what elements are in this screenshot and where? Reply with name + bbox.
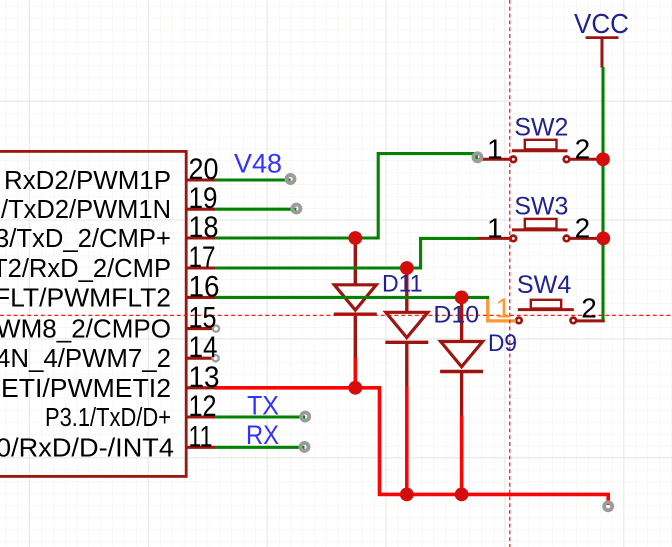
pin 18 stub <box>187 236 216 239</box>
svg-text:/TxD2/PWM1N: /TxD2/PWM1N <box>1 196 171 224</box>
open end marker net V48 <box>287 175 295 183</box>
wire net V48 <box>216 178 291 181</box>
switch SW3 <box>479 219 602 241</box>
diode D9 <box>440 297 483 415</box>
svg-text:15: 15 <box>189 302 217 335</box>
wire net pin13 / bottom bus (red) <box>215 388 608 505</box>
wire net pin16 toward SW4 <box>216 297 488 300</box>
pin 14 stub <box>187 357 213 360</box>
svg-text:D10: D10 <box>433 301 479 328</box>
diode D10 <box>385 268 428 387</box>
wire D11 cathode to junction <box>353 357 357 388</box>
pin 17 stub <box>187 266 216 269</box>
svg-text:13: 13 <box>189 361 220 394</box>
junction pin17/D10 anode <box>400 261 414 275</box>
svg-text:WM8_2/CMPO: WM8_2/CMPO <box>0 316 171 344</box>
pin 12 stub <box>187 415 216 418</box>
IC U1 body <box>0 151 186 476</box>
pin 19 stub <box>187 208 216 211</box>
svg-text:T2/RxD_2/CMP: T2/RxD_2/CMP <box>0 255 171 283</box>
wire net pin18 to SW2 pin1 <box>216 154 477 238</box>
svg-text:17: 17 <box>189 241 216 274</box>
wire D9 cathode to bus <box>460 416 464 495</box>
svg-text:2: 2 <box>575 133 591 164</box>
junction VCC/SW2 pin2 <box>596 152 610 166</box>
junction bus/D9 cathode <box>455 488 469 502</box>
highlighted wire segment to SW4 pin 1 (orange) <box>488 299 516 321</box>
diode D11 <box>334 238 377 357</box>
unconnected pin 14 end marker <box>213 355 219 361</box>
pin 11 stub <box>187 446 216 449</box>
svg-text:2: 2 <box>575 213 591 244</box>
junction pin16/D9 anode <box>455 291 469 305</box>
wire D10 cathode to bus <box>405 387 409 495</box>
junction pin13/D11 cathode <box>348 381 362 395</box>
open end marker pin19 net <box>292 205 300 213</box>
junction VCC/SW3 pin2 <box>596 232 610 246</box>
svg-text:20: 20 <box>189 153 219 186</box>
svg-text:3/TxD_2/CMP+: 3/TxD_2/CMP+ <box>0 225 171 253</box>
switch SW2 <box>479 140 602 162</box>
svg-text:4N_4/PWM7_2: 4N_4/PWM7_2 <box>0 345 171 373</box>
wire net RX <box>216 446 305 449</box>
junction bus/D10 cathode <box>400 488 414 502</box>
open end marker bottom right <box>604 502 612 510</box>
wire net pin19 <box>216 208 297 211</box>
svg-text:1: 1 <box>496 293 512 324</box>
svg-text:RxD2/PWM1P: RxD2/PWM1P <box>4 167 171 195</box>
svg-text:0/RxD/D-/INT4: 0/RxD/D-/INT4 <box>0 434 174 462</box>
svg-text:SW3: SW3 <box>514 193 568 221</box>
unconnected pin 15 end marker <box>213 326 219 332</box>
svg-text:18: 18 <box>189 211 219 244</box>
svg-text:ETI/PWMETI2: ETI/PWMETI2 <box>1 375 171 403</box>
svg-text:14: 14 <box>189 331 218 364</box>
wire net VCC vertical <box>601 67 604 320</box>
svg-text:SW2: SW2 <box>514 114 568 142</box>
pin 13 stub <box>187 386 216 389</box>
pin 20 stub <box>187 178 216 181</box>
wire net pin17 to SW3 pin1 <box>216 238 479 268</box>
svg-text:SW4: SW4 <box>517 271 571 299</box>
wire net TX <box>216 415 306 418</box>
pin 16 stub <box>187 296 216 299</box>
open end marker at SW2 pin1 <box>474 153 482 161</box>
switch SW4 <box>516 300 605 323</box>
junction pin18/D11 anode <box>348 231 362 245</box>
svg-text:1: 1 <box>487 213 503 244</box>
svg-text:2: 2 <box>581 293 597 324</box>
svg-text:D9: D9 <box>488 330 517 357</box>
svg-text:TX: TX <box>247 391 279 421</box>
power symbol VCC <box>586 38 619 68</box>
svg-text:V48: V48 <box>234 149 282 179</box>
open end marker TX <box>301 413 309 421</box>
svg-text:16: 16 <box>189 270 220 303</box>
svg-text:11: 11 <box>189 420 213 453</box>
svg-text:12: 12 <box>189 390 217 423</box>
svg-text:P3.1/TxD/D+: P3.1/TxD/D+ <box>45 404 171 432</box>
svg-text:D11: D11 <box>382 270 423 297</box>
svg-text:1: 1 <box>487 133 503 164</box>
svg-text:FLT/PWMFLT2: FLT/PWMFLT2 <box>0 284 171 312</box>
svg-text:VCC: VCC <box>574 8 629 39</box>
svg-text:RX: RX <box>246 420 279 450</box>
open end marker RX <box>301 443 309 451</box>
pin 15 stub <box>187 327 213 330</box>
